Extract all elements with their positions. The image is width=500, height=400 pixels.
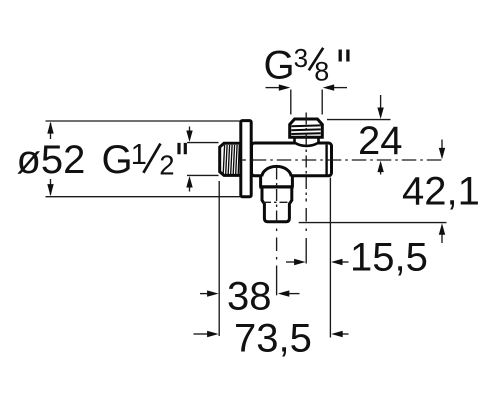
G1/2 arrow down (186, 131, 192, 143)
G3/8 arrow right (279, 84, 291, 90)
svg-text:2: 2 (159, 150, 174, 181)
G1/2 arrow shaft bottom (189, 186, 191, 192)
bottom extension line (299, 222, 447, 224)
outlet collar left wall (259, 177, 262, 187)
svg-text:G: G (264, 44, 295, 88)
15,5 arrow right (294, 259, 306, 265)
73,5 arrow left (331, 331, 343, 337)
outlet separator line (259, 185, 293, 188)
left threaded stub G1/2 (220, 143, 242, 175)
42,1 dim shaft bottom (441, 233, 443, 243)
15,5 arrow left (331, 259, 343, 265)
24 dim shaft top (380, 95, 382, 110)
dia52 top extension line (46, 120, 241, 122)
dia52 arrow shaft bottom (50, 179, 52, 195)
label G3/8" (264, 43, 348, 87)
svg-text:ø52: ø52 (17, 138, 86, 182)
svg-text:G: G (102, 138, 133, 182)
valve body (horizontal tube) (252, 143, 332, 176)
outlet horizontal cross line (263, 201, 291, 203)
top threaded stub G3/8 (290, 119, 323, 137)
outlet fill (261, 177, 293, 223)
svg-text:24: 24 (358, 119, 403, 163)
left vertical extension line (218, 181, 220, 336)
svg-text:73,5: 73,5 (234, 317, 312, 361)
wall flange (241, 121, 251, 197)
38 arrow right (207, 290, 219, 296)
thread line 3 (291, 132, 320, 135)
outlet lower body (262, 187, 292, 222)
outlet dome fill (262, 166, 291, 177)
73,5 dim shaft left (194, 333, 210, 335)
svg-text:42,1: 42,1 (402, 170, 480, 214)
G3/8 extension line left (290, 90, 292, 115)
38 dim shaft left (200, 293, 209, 295)
body right cap line (325, 145, 327, 175)
outlet dome arc (262, 166, 291, 177)
svg-text:8: 8 (314, 56, 329, 86)
24 arrow up (377, 161, 383, 173)
thread line 1 (291, 124, 320, 127)
dia52 arrow up (47, 122, 53, 134)
outlet collar right wall (291, 177, 294, 187)
42,1 arrow up (439, 223, 445, 235)
G1/2 arrow up (186, 176, 192, 188)
15,5 dim shaft right (340, 261, 349, 263)
centerlines (243, 113, 445, 296)
svg-text:38: 38 (227, 275, 272, 319)
G3/8 extension line right (321, 90, 323, 115)
G3/8 dim line left (266, 87, 282, 89)
dia52 bottom extension line (46, 196, 241, 198)
outlet vertical axis (276, 168, 278, 223)
dia52 arrow down (47, 184, 53, 196)
G3/8 dim line right (332, 87, 347, 89)
38 arrow left (278, 290, 290, 296)
thin lines (46, 88, 447, 338)
24 arrow down (377, 108, 383, 120)
main horizontal axis (243, 159, 246, 161)
dia52 arrow shaft top (50, 123, 52, 139)
24 dim shaft bottom (380, 169, 382, 175)
G1/2 arrow shaft top (189, 127, 191, 133)
left stub hatch (223, 145, 239, 174)
73,5 dim shaft right (341, 333, 349, 335)
38 dim shaft right (289, 293, 300, 295)
top stub neck outline (295, 138, 319, 146)
svg-text:3: 3 (294, 43, 308, 73)
42,1 dim shaft top (441, 140, 443, 151)
73,5 arrow right (207, 331, 219, 337)
svg-text:1: 1 (131, 139, 147, 171)
top stub neck fill (295, 138, 319, 147)
stub top extension line (327, 119, 391, 121)
arrowheads (47, 84, 445, 337)
15,5 dim shaft left (286, 261, 296, 263)
42,1 arrow down (439, 148, 445, 160)
G1/2 top dim line (187, 142, 219, 144)
svg-text:15,5: 15,5 (350, 236, 428, 280)
thread line 2 (291, 128, 320, 131)
G3/8 arrow left (323, 84, 335, 90)
top stub vertical axis (305, 113, 307, 202)
G1/2 bottom dim line (187, 174, 219, 176)
label dia52 G1/2" (17, 138, 186, 182)
right vertical extension line (329, 178, 331, 338)
